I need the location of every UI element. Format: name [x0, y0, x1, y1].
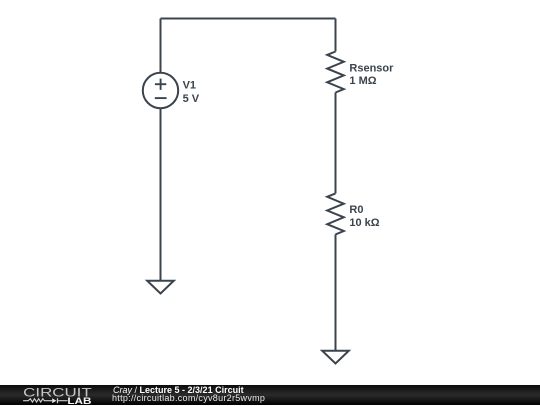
ground (right) — [322, 351, 349, 364]
logo diode bar — [57, 398, 59, 403]
svg-text:R0: R0 — [349, 204, 363, 216]
wire right riser to Rsensor — [335, 19, 337, 52]
footer title text — [113, 386, 244, 395]
svg-text:V1: V1 — [183, 79, 196, 91]
svg-text:10 kΩ: 10 kΩ — [349, 217, 379, 229]
footer url text — [112, 394, 265, 403]
label R0 10 kΩ — [349, 204, 379, 229]
svg-text:1 MΩ: 1 MΩ — [349, 75, 376, 87]
wire R0 to ground — [335, 234, 337, 350]
label V1 value 5 V — [183, 79, 200, 105]
svg-text:Rsensor: Rsensor — [349, 62, 394, 74]
resistor R0 — [327, 193, 344, 234]
label Rsensor 1 MΩ — [349, 62, 394, 87]
logo diode triangle — [52, 398, 56, 403]
CircuitLab logo — [0, 385, 100, 406]
voltage source V1 — [143, 73, 178, 108]
logo wire with resistor zigzag — [23, 398, 67, 403]
wire V1 bottom to ground — [160, 108, 162, 281]
wire top horizontal net — [161, 18, 336, 20]
footer bar — [0, 385, 540, 405]
wire Rsensor to R0 — [335, 93, 337, 194]
wire left riser to V1 — [160, 19, 162, 73]
svg-text:LAB: LAB — [67, 396, 91, 406]
resistor Rsensor — [327, 52, 344, 93]
ground (left) — [147, 281, 174, 294]
svg-text:5 V: 5 V — [183, 93, 200, 105]
